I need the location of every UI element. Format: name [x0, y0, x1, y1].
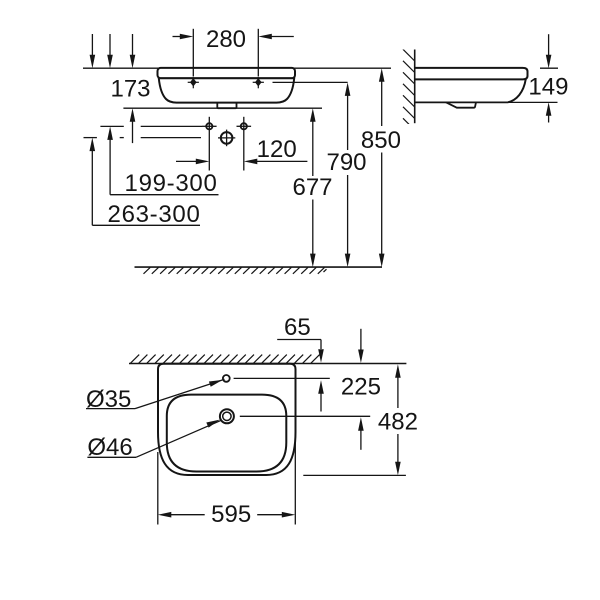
washbasin front rim	[158, 68, 296, 78]
label 120	[257, 136, 297, 163]
label 677	[292, 174, 332, 201]
drain tab front	[217, 103, 236, 108]
wire drain hole line	[240, 415, 370, 417]
dim 595 arrows	[158, 512, 295, 518]
leader Ø35	[86, 379, 225, 408]
dim 677 top arrow	[310, 108, 316, 176]
dim 280 ext line right	[257, 29, 259, 77]
washbasin plan outer	[158, 364, 296, 475]
dim 120 right arrow	[244, 159, 308, 165]
svg-text:482: 482	[378, 408, 418, 435]
wall hatching side view	[403, 49, 415, 130]
label Ø35	[86, 386, 131, 413]
tap hole marker at x=193.3	[188, 77, 199, 88]
dim 280 right arrow	[258, 34, 294, 40]
dim 199-300 arrow	[107, 126, 113, 194]
svg-text:595: 595	[211, 501, 251, 528]
dim 280 left arrow	[173, 34, 194, 40]
dim 280 ext line left	[192, 29, 194, 77]
node top down-arrow 2	[107, 34, 113, 68]
label 280	[206, 26, 246, 53]
mounting hole at x=243.8	[237, 117, 252, 171]
svg-text:677: 677	[292, 174, 332, 201]
dim 225 bottom arrow	[358, 417, 364, 450]
dim 482 top arrow	[395, 364, 401, 408]
dim 149 bottom arrow	[546, 102, 552, 122]
wire wall line side view	[414, 50, 416, 124]
wire 149 bottom ref line	[508, 101, 558, 103]
drain hole front	[218, 130, 235, 147]
washbasin plan inner bowl	[167, 395, 286, 472]
svg-text:173: 173	[110, 76, 150, 103]
washbasin front body	[159, 78, 294, 102]
dim 225 top arrow	[358, 329, 364, 363]
svg-text:120: 120	[257, 136, 297, 163]
leader Ø46	[87, 420, 221, 458]
dim 677 line lower	[310, 200, 316, 268]
label Ø46	[87, 434, 132, 461]
tap hole marker at x=258.3	[253, 77, 264, 88]
svg-text:65: 65	[284, 314, 311, 341]
dim 173 bottom arrow	[130, 108, 136, 143]
wire 482 bottom ref line	[303, 474, 406, 476]
wire wall reference line (front view, 850 level)	[83, 67, 391, 69]
wire floor line	[135, 266, 383, 268]
mounting hole at x=209.3	[202, 117, 217, 171]
wire 790 ref line	[273, 81, 348, 83]
svg-text:149: 149	[528, 74, 568, 101]
dim 263-300 arrow	[90, 138, 96, 226]
dim 120 left arrow	[176, 159, 209, 165]
dim 65 up arrow	[318, 380, 324, 411]
washbasin side rim	[415, 68, 528, 80]
dim 850 line lower	[379, 153, 385, 268]
dim 149 top arrow	[546, 34, 552, 68]
drain tab side	[446, 102, 476, 107]
label 850	[361, 127, 401, 154]
label 482	[378, 408, 418, 435]
wire 149 top ref line	[540, 67, 558, 69]
svg-text:263-300: 263-300	[108, 201, 201, 228]
wire tick line y137	[84, 137, 202, 139]
dim 199-300 bracket	[110, 194, 218, 196]
wire wall line plan	[129, 363, 406, 365]
dim 482 bottom arrow	[395, 434, 401, 475]
label 199-300	[125, 170, 218, 197]
dim 263-300 bracket	[92, 224, 200, 226]
label 173	[110, 76, 150, 103]
washbasin side bottom	[415, 101, 508, 103]
wire 677 ref line	[123, 107, 322, 109]
floor hatching	[144, 267, 327, 273]
washbasin side front curve	[508, 79, 526, 102]
tap hole plan	[223, 375, 230, 382]
dim 65 down arrow	[318, 349, 324, 363]
svg-text:280: 280	[206, 26, 246, 53]
label 595	[211, 501, 251, 528]
label 149	[528, 74, 568, 101]
dim 595 ext right	[294, 430, 296, 525]
label 263-300	[108, 201, 201, 228]
wire tap hole line	[234, 377, 330, 379]
label 65	[284, 314, 311, 341]
dim 790 top arrow	[345, 82, 351, 150]
svg-text:850: 850	[361, 127, 401, 154]
wire tick line y126	[100, 125, 202, 127]
dim 850 top arrow	[379, 68, 385, 126]
wall hatching plan	[131, 355, 320, 364]
label 790	[326, 149, 366, 176]
drain hole plan	[220, 409, 234, 423]
dim 595 ext left	[157, 452, 159, 525]
svg-text:225: 225	[341, 373, 381, 400]
svg-text:199-300: 199-300	[125, 170, 218, 197]
label 225	[341, 373, 381, 400]
node top down-arrow 3	[130, 34, 136, 68]
dim 790 line lower	[345, 175, 351, 267]
dim 65 bracket	[277, 340, 321, 350]
node top down-arrow 1	[90, 34, 96, 68]
